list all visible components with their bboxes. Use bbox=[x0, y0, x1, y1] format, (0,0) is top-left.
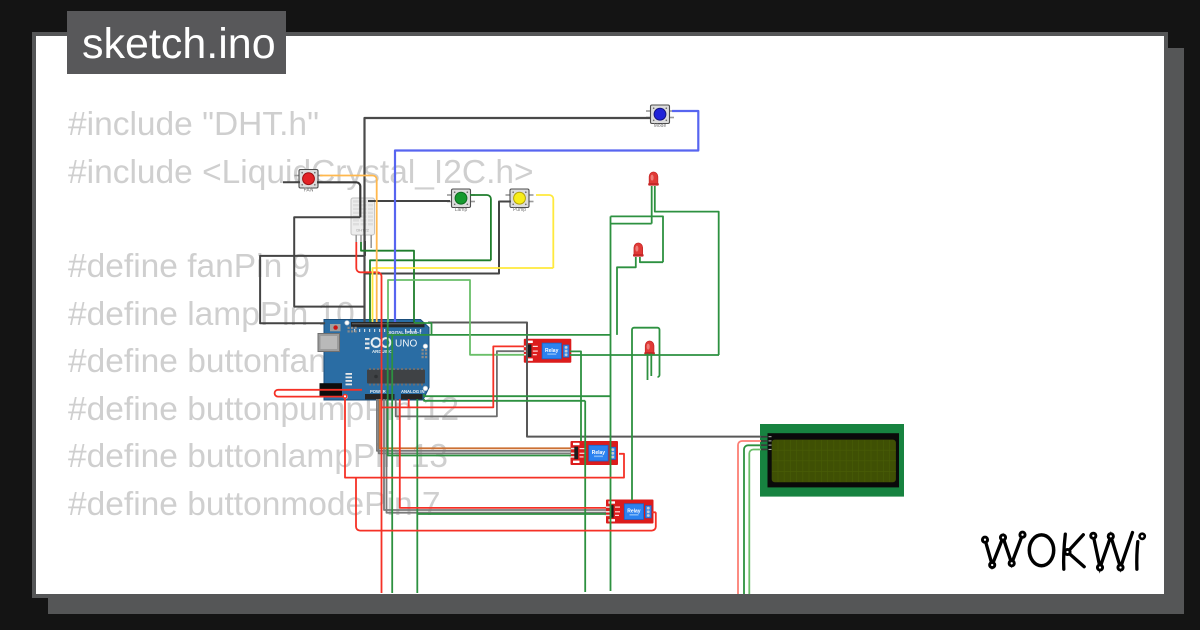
LED D2 bbox=[633, 243, 644, 257]
svg-text:Relay: Relay bbox=[545, 348, 559, 354]
wire black DHT to Lamp button bbox=[368, 200, 450, 202]
wire red relay1 VCC bbox=[382, 346, 525, 407]
wire yellow Pump to Arduino bbox=[373, 195, 554, 322]
svg-text:UNO: UNO bbox=[395, 339, 417, 350]
wire green relay1 terminal to LED1 bbox=[570, 186, 719, 355]
wire green LED1 cathode down bbox=[611, 186, 652, 224]
LED D1 bbox=[648, 172, 659, 186]
wire green LED box left column bbox=[611, 216, 664, 591]
Arduino Uno U1 bbox=[318, 320, 429, 401]
wire green relay3 bbox=[417, 513, 606, 515]
svg-text:Pump: Pump bbox=[513, 207, 526, 213]
wire green Arduino pin connector bbox=[415, 322, 432, 335]
wire black Arduino GND to relay column and LCD bbox=[428, 323, 761, 437]
wire green LCD SDA SCL bbox=[744, 445, 761, 594]
wire red relay3 VCC bbox=[400, 399, 606, 508]
wire black FAN left stub bbox=[283, 181, 300, 183]
LCD display bbox=[760, 424, 904, 497]
wire light green Arduino to relay1 IN bbox=[388, 280, 524, 355]
relay module K3 bbox=[605, 500, 654, 524]
sketch.ino title tab bbox=[67, 11, 286, 74]
relay module K1 bbox=[522, 339, 571, 363]
wire green LED3 hook bbox=[632, 328, 660, 500]
pushbutton FAN bbox=[295, 170, 323, 194]
svg-text:ARDUINO: ARDUINO bbox=[372, 349, 393, 354]
svg-text:Relay: Relay bbox=[592, 450, 606, 456]
wire green Arduino through-board to relay2 bbox=[388, 322, 571, 456]
LED D3 bbox=[644, 341, 655, 355]
pushbutton Lamp bbox=[447, 189, 475, 213]
wire red DHT VCC through-board bbox=[356, 242, 381, 593]
sensor DHT22 bbox=[351, 198, 375, 248]
wire red 5V U-turn and relay2 bbox=[275, 390, 624, 478]
svg-text:POWER: POWER bbox=[370, 389, 386, 394]
wire black GND bus upper bbox=[294, 217, 364, 306]
junction 5V node bbox=[342, 394, 347, 399]
wire gray relay2 signal pair bbox=[377, 399, 571, 453]
wire red LCD VCC bbox=[738, 441, 761, 594]
wire green DHT data to Arduino bbox=[361, 242, 414, 322]
wire green relay1 terminal to relay2 bbox=[570, 351, 581, 441]
Wokwi logo bbox=[982, 532, 1144, 570]
wire green Lamp button to Arduino bbox=[370, 195, 491, 322]
wire green horizontal bus to LED column bbox=[388, 334, 611, 336]
pushbutton Mode bbox=[646, 105, 674, 129]
svg-text:ANALOG IN: ANALOG IN bbox=[401, 389, 425, 394]
svg-text:DHT22: DHT22 bbox=[356, 228, 369, 233]
wire gray relay3 signal pair bbox=[384, 399, 606, 513]
wire green LED2 leads bbox=[617, 257, 663, 335]
wire gray relay1 signal bbox=[396, 351, 524, 416]
wire brown relay2 bbox=[380, 399, 571, 448]
wire green right side buses bbox=[424, 394, 611, 592]
wire blue Mode to Arduino bbox=[395, 111, 698, 322]
svg-text:Mode: Mode bbox=[654, 123, 667, 129]
wire green Arduino to bottom bbox=[416, 399, 418, 593]
svg-text:FAN: FAN bbox=[304, 188, 314, 194]
wire red relay3 right loop bbox=[356, 478, 656, 531]
wire orange FAN to Arduino bbox=[320, 176, 377, 323]
relay module K2 bbox=[569, 441, 618, 465]
wire black GND bus lower bbox=[260, 241, 365, 323]
svg-text:Relay: Relay bbox=[627, 509, 641, 515]
wire green vertical to bottom bbox=[391, 335, 393, 593]
wire black FAN to bus bbox=[317, 182, 360, 217]
svg-text:Lamp: Lamp bbox=[455, 207, 468, 213]
wire black Pump button to bus bbox=[366, 202, 512, 274]
pushbutton Pump bbox=[506, 189, 534, 213]
wire black Mode button to Arduino D7 bbox=[365, 118, 652, 322]
